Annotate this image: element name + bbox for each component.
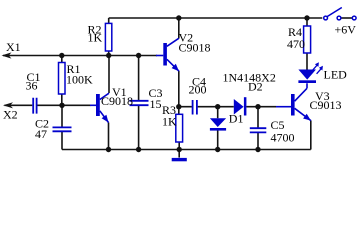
svg-text:100K: 100K bbox=[66, 72, 93, 86]
svg-text:36: 36 bbox=[26, 79, 38, 93]
svg-text:+6V: +6V bbox=[335, 23, 357, 37]
svg-text:15: 15 bbox=[150, 97, 162, 111]
svg-text:1K: 1K bbox=[162, 115, 177, 129]
svg-text:1K: 1K bbox=[88, 31, 103, 45]
svg-text:47: 47 bbox=[35, 127, 47, 141]
svg-text:D2: D2 bbox=[248, 80, 263, 94]
svg-text:X1: X1 bbox=[6, 40, 21, 54]
svg-text:C9018: C9018 bbox=[101, 94, 133, 108]
svg-text:D1: D1 bbox=[229, 112, 244, 126]
svg-text:LED: LED bbox=[324, 68, 348, 82]
svg-text:200: 200 bbox=[189, 82, 207, 96]
svg-text:X2: X2 bbox=[3, 107, 18, 121]
svg-text:470: 470 bbox=[287, 37, 305, 51]
svg-text:4700: 4700 bbox=[271, 130, 295, 144]
svg-text:C9018: C9018 bbox=[179, 40, 211, 54]
svg-text:C9013: C9013 bbox=[310, 98, 342, 112]
